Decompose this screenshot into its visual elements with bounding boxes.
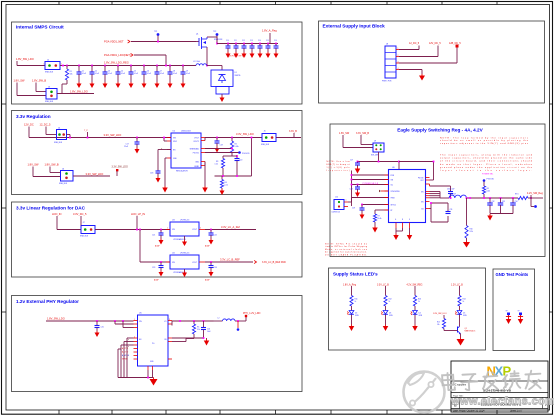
ground below C3 [103, 82, 108, 88]
ground below Q2 [457, 338, 465, 346]
svg-text:1.2v External PHY Regulator: 1.2v External PHY Regulator [16, 299, 79, 304]
svg-text:3.3V_LC_B_REF PAD: 3.3V_LC_B_REF PAD [262, 261, 286, 264]
wire output rail eagle [466, 197, 518, 199]
svg-text:TP: TP [518, 311, 520, 313]
svg-text:12V_DC_5: 12V_DC_5 [429, 42, 441, 45]
net label 4.2V_SW_Reg [527, 192, 543, 199]
net label 1.8V_SW_B row2 box2 [45, 163, 59, 167]
svg-text:ground plane under the applic: ground plane under the application circu… [440, 166, 533, 169]
watermark logo circle [404, 372, 445, 413]
svg-text:1.8V_A_Reg: 1.8V_A_Reg [343, 283, 357, 286]
ground below C22 [209, 239, 214, 245]
wire fan to pin3 [123, 321, 134, 328]
block border Eagle Supply Switching Reg [330, 124, 545, 257]
capacitor C5 [129, 65, 139, 82]
wire LDO_IN rail [57, 216, 81, 230]
block border 3.3v Linear Regulation for DAC [12, 202, 303, 277]
svg-text:SS8P3L: SS8P3L [235, 75, 241, 77]
svg-text:L3 4.7uH: L3 4.7uH [449, 193, 457, 195]
svg-text:0.1uF: 0.1uF [147, 73, 151, 75]
svg-text:3: 3 [398, 61, 399, 63]
svg-text:PGA VDD1_NET: PGA VDD1_NET [104, 40, 124, 44]
svg-text:DO NOT LEAVE FLOATING.: DO NOT LEAVE FLOATING. [325, 253, 367, 256]
ground below U6 pin3 [407, 234, 413, 241]
ground below C12 [242, 52, 247, 58]
block border 3.3v Regulation [12, 111, 303, 195]
svg-text:Q2: Q2 [465, 328, 467, 330]
capacitor C17 input [124, 137, 140, 148]
capacitor C22 [209, 229, 217, 239]
capacitor C6 [142, 65, 152, 82]
svg-text:D4: D4 [419, 313, 421, 315]
svg-text:NTA4153N: NTA4153N [214, 38, 223, 41]
svg-text:frequencies): frequencies) [327, 170, 350, 172]
ground below U6 pin1 [393, 234, 399, 241]
capacitor C11 [234, 40, 239, 52]
svg-text:PGOOD: PGOOD [418, 178, 425, 180]
op-amp U5 PHY LDO [134, 313, 173, 371]
svg-text:1.8V_SW_LDO: 1.8V_SW_LDO [433, 313, 447, 315]
svg-text:1.8V_SW_B: 1.8V_SW_B [32, 79, 46, 83]
svg-text:3.3V_LC_B_REF: 3.3V_LC_B_REF [220, 258, 240, 262]
svg-text:C32: C32 [492, 201, 495, 203]
svg-text:J10: J10 [335, 197, 338, 199]
svg-text:SENSE: SENSE [122, 358, 129, 360]
wire 1.8V_SW to jumper J6 [33, 167, 61, 177]
test point TP4 output [531, 198, 537, 208]
net label 3.3V_LC_B_REF PAD [262, 261, 286, 264]
inductor L1 [193, 61, 207, 66]
svg-text:C9: C9 [186, 71, 188, 73]
svg-text:1.8V_SW_LDO: 1.8V_SW_LDO [16, 57, 34, 61]
svg-text:NOTE: SYNC Pin should be: NOTE: SYNC Pin should be [325, 244, 367, 246]
ground below C13 [250, 52, 255, 58]
svg-text:RT: RT [391, 210, 393, 212]
net label 3.3V_SW_LDO input bus [104, 133, 122, 137]
resistor R15 base [437, 315, 458, 331]
capacitor C18 [150, 171, 161, 177]
net label 3.3V_B [289, 130, 297, 138]
net label 1.8V_SW_LDO [16, 57, 34, 61]
ground below R7 [372, 226, 378, 233]
wire 1.8V_SW_B to jumper J6 [50, 167, 61, 173]
resistor R8 PGOOD pullup [482, 182, 490, 199]
svg-text:LP2985-3.3: LP2985-3.3 [180, 253, 189, 255]
ground below C28 [355, 191, 360, 197]
resistor R11 [350, 296, 358, 311]
svg-text:VIN: VIN [391, 180, 394, 182]
wire VOUT bus [205, 138, 262, 141]
svg-text:SNB_BLK: SNB_BLK [59, 183, 68, 185]
resistor R4 to ground [220, 176, 227, 189]
svg-text:VOUT: VOUT [192, 262, 197, 264]
jumper J4 SNB_BLK [54, 128, 67, 145]
net label 1.8V_SW row2 [14, 79, 26, 83]
svg-text:51k: 51k [197, 329, 200, 331]
svg-text:BST: BST [421, 180, 424, 182]
diode D1 pad [216, 87, 229, 95]
wire U6 ground pins [396, 228, 410, 234]
svg-text:NOTE: Use a low: NOTE: Use a low [327, 161, 351, 163]
note text top right eagle [440, 137, 533, 173]
svg-text:GND Test Points: GND Test Points [496, 272, 529, 277]
watermark url text [450, 396, 554, 408]
net label LDO_IN [52, 212, 61, 216]
resistor R13 [413, 296, 421, 311]
net label 12_DC_5 [409, 42, 420, 45]
capacitor C23 [152, 261, 164, 270]
capacitor C9 [181, 65, 191, 82]
net label PGA VDD1_NET with off-page arrow [104, 40, 130, 44]
wire bundle left pins down [118, 338, 134, 378]
net label 3.3V_SW_LDO row2 [86, 172, 104, 176]
svg-text:VOUT2: VOUT2 [193, 141, 199, 143]
svg-text:R9 0: R9 0 [515, 194, 519, 196]
svg-text:C14: C14 [258, 40, 261, 42]
svg-text:0.1uF: 0.1uF [95, 73, 99, 75]
svg-text:C4: C4 [121, 71, 123, 73]
ground below C2 [90, 82, 95, 88]
capacitor C34 output 3 [510, 197, 517, 213]
ground connector pin4 [419, 74, 425, 81]
test point TP6 GND [518, 311, 524, 320]
svg-text:be made on that layer. Place a: be made on that layer. Place a local, un… [440, 163, 533, 166]
wire 12V_DC to regulator input [29, 127, 171, 138]
wire EN to cap C18 [158, 150, 171, 172]
svg-text:FB: FB [164, 339, 166, 341]
capacitor C21 [152, 229, 164, 239]
svg-text:N: N [402, 219, 403, 221]
LED D4 [411, 311, 423, 325]
jumper J5 output [261, 131, 276, 147]
wire left pin bus [351, 171, 389, 207]
svg-text:1.2V_LC_B: 1.2V_LC_B [451, 284, 463, 286]
inductor L3 [449, 193, 467, 198]
ground below C14 [258, 52, 263, 58]
capacitor C30 bootstrap [447, 189, 454, 199]
svg-text:C3: C3 [108, 71, 110, 73]
ground below C4 [116, 82, 121, 88]
ground below R10 [463, 241, 470, 248]
svg-text:MMBT3904LT1: MMBT3904LT1 [465, 330, 476, 332]
resistor R5 feedback vertical [172, 321, 200, 342]
net label 1.8V_SW_B row2 [32, 79, 46, 83]
svg-text:LDO_LP_IN: LDO_LP_IN [131, 212, 145, 216]
capacitor C15 [266, 40, 271, 52]
block border GND Test Points [493, 269, 535, 351]
svg-text:0.1uF: 0.1uF [82, 73, 86, 75]
capacitor C7 [155, 65, 165, 82]
test point TP5 GND [506, 311, 512, 320]
net label PGA VDD1_LDO(NET) with off-page arrow [104, 53, 133, 57]
LED D3 [381, 311, 393, 325]
svg-text:12B_DC_5: 12B_DC_5 [449, 42, 461, 45]
capacitor C16 [274, 40, 279, 52]
op-amp U4 LP2985 LDO B [166, 253, 205, 275]
ground below C17 [135, 148, 140, 154]
wire 12_DC_5 to jumper J4 [46, 127, 57, 135]
off-page arrow 3.3V_LC_B_REF [254, 260, 256, 263]
svg-text:0.1uF: 0.1uF [121, 73, 125, 75]
svg-text:R12: R12 [389, 299, 392, 301]
ground below D1 [220, 94, 225, 102]
resistor R12 [384, 296, 392, 311]
svg-text:C6: C6 [147, 71, 149, 73]
svg-text:1: 1 [167, 228, 168, 230]
jumper J2 SNB_BLK [44, 60, 62, 74]
svg-text:Sheet 2 of 7: Sheet 2 of 7 [510, 410, 523, 413]
svg-text:C26: C26 [207, 329, 210, 331]
svg-text:tied to INTVcc for Pulse Skipp: tied to INTVcc for Pulse Skipping [325, 245, 367, 248]
svg-text:LP2985-3.3: LP2985-3.3 [180, 220, 189, 222]
ground below C9 [181, 82, 186, 88]
ground below C26 [204, 338, 210, 346]
svg-text:PGOOD: PGOOD [242, 153, 250, 155]
capacitor C33 output 2 [498, 197, 505, 213]
capacitor C8 [168, 65, 178, 82]
wire drain bus to input caps [207, 37, 278, 44]
svg-text:TP: TP [506, 311, 508, 313]
svg-text:Supply Status LED's: Supply Status LED's [333, 272, 378, 277]
wire 1.8V_SW to jumper J3 [17, 83, 46, 96]
svg-text:1.0k: 1.0k [215, 164, 218, 166]
svg-text:PHY_1.2V_LDO: PHY_1.2V_LDO [243, 312, 261, 315]
svg-text:10uF: 10uF [207, 331, 211, 333]
wire BST node to bootstrap cap [426, 184, 451, 192]
wire SENSE to feedback node [205, 148, 233, 150]
svg-text:0.1uF: 0.1uF [134, 73, 138, 75]
svg-text:R10: R10 [470, 229, 473, 231]
svg-text:x: x [346, 200, 347, 202]
test point PGOOD [205, 151, 250, 155]
capacitor C4 [116, 65, 126, 82]
red note below C21 [155, 245, 160, 248]
test point TP2 [213, 31, 218, 44]
net label PHY_1.2V_LDO [243, 312, 261, 321]
ground below C23 [159, 271, 164, 277]
svg-text:C8: C8 [173, 71, 175, 73]
op-amp U2 LMZ12003 regulator module [167, 131, 205, 173]
wire pin2 to 12V_DC_5 [399, 46, 438, 57]
wire PGA VDD1_LDO to bus [134, 55, 167, 66]
note text bottom left eagle [325, 244, 367, 257]
wire feedback bottom rail [215, 137, 253, 177]
wire U5 output merge [172, 320, 214, 325]
X mark DNI [161, 148, 163, 151]
net stub 3.3V_SW_LDO dark [112, 166, 128, 177]
block border 1.2v External PHY Regulator [12, 296, 303, 392]
svg-text:0.1k: 0.1k [225, 185, 228, 187]
svg-text:1.8V_A_Reg: 1.8V_A_Reg [262, 29, 277, 33]
wire INTVCC pin to C29 [361, 204, 388, 206]
wire GND pin down [165, 158, 167, 186]
svg-text:100k: 100k [487, 190, 491, 192]
svg-text:10k: 10k [70, 74, 73, 76]
svg-text:D2: D2 [355, 313, 357, 315]
wire jumper J5 to box edge [276, 137, 301, 139]
svg-text:C34: C34 [515, 201, 518, 203]
net label 12V_DC [24, 123, 34, 127]
ground below U2 mid [221, 188, 223, 190]
svg-text:5.90k: 5.90k [235, 146, 239, 148]
wire jumper J9 to VIN rail [357, 152, 399, 162]
svg-text:SNB_BLK: SNB_BLK [261, 144, 270, 146]
block border External Supply Input Block [319, 21, 545, 103]
svg-text:VOUT: VOUT [194, 138, 199, 140]
block border Internal SMPS Circuit [12, 22, 303, 104]
capacitor C25 [95, 321, 104, 331]
svg-text:LMZ12003: LMZ12003 [181, 131, 191, 133]
ground below C10 [226, 52, 231, 58]
jumper J9 SW_JMP 2x2 [371, 141, 384, 157]
svg-text:0.1uF: 0.1uF [108, 73, 112, 75]
transistor Q1 PMOS [196, 34, 223, 50]
svg-text:3.3V_LC_B: 3.3V_LC_B [377, 284, 389, 286]
svg-text:should be as small as possible: should be as small as possible by placin… [440, 139, 529, 142]
resistor R10 feedback 121k [465, 198, 473, 241]
wire LDO_LP_IN drop [136, 216, 138, 230]
svg-text:C10: C10 [226, 40, 229, 42]
svg-text:C31: C31 [450, 209, 453, 211]
svg-text:INTVCC: INTVCC [391, 205, 398, 207]
svg-text:3.3v Regulation: 3.3v Regulation [16, 114, 51, 119]
wire 1.8V_A_Reg to resistor [351, 286, 353, 296]
wire fan to pin2 [115, 321, 134, 324]
ground below TP5 [506, 319, 512, 324]
svg-text:PGOOD: PGOOD [193, 153, 200, 155]
ground below C7 [155, 82, 160, 88]
svg-text:C30 0.1uF: C30 0.1uF [447, 189, 454, 191]
svg-text:1.8V_SW: 1.8V_SW [14, 79, 26, 83]
svg-text:R7: R7 [378, 216, 380, 218]
svg-text:R11: R11 [355, 299, 358, 301]
note PADS POWER TIP [227, 55, 245, 58]
svg-text:1: 1 [398, 48, 399, 50]
svg-text:3.3V_SW_LDO: 3.3V_SW_LDO [236, 132, 254, 136]
svg-text:C29: C29 [352, 208, 355, 210]
svg-text:D5: D5 [463, 313, 465, 315]
svg-text:3.3V_SW_LDO: 3.3V_SW_LDO [86, 172, 104, 176]
svg-text:www.elecfans.com: www.elecfans.com [450, 396, 554, 408]
wire from 1.8V_SW_LDO to jumper J2 [17, 61, 45, 66]
svg-text:3.3V_DC_5: 3.3V_DC_5 [73, 212, 87, 216]
net label 1.8V_SW_LDO on wire [70, 90, 88, 94]
wire pin3 to 12B_DC_5 [399, 47, 457, 63]
svg-text:The input capacitors, along wi: The input capacitors, along with the ind… [440, 154, 533, 157]
svg-text:1(8) x.5(8) pole: 1(8) x.5(8) pole [327, 167, 350, 169]
svg-text:C24: C24 [214, 267, 217, 269]
svg-text:1.8V_SW_LDO: 1.8V_SW_LDO [47, 317, 65, 321]
svg-text:C13: C13 [250, 40, 253, 42]
svg-text:1k: 1k [463, 301, 465, 303]
svg-text:ESR(?) to bump at: ESR(?) to bump at [327, 163, 351, 166]
resistor R9 series output [515, 194, 528, 200]
ground below C15 [266, 52, 271, 58]
capacitor C26 output [172, 321, 211, 339]
svg-text:C21: C21 [152, 235, 155, 237]
svg-text:A_MODE: A_MODE [122, 354, 130, 357]
svg-text:output capacitors, should be p: output capacitors, should be placed on t… [440, 157, 533, 160]
capacitor C10 [226, 40, 231, 52]
red note below C24 [205, 279, 210, 282]
NXP logo [487, 364, 512, 379]
svg-text:SENSE/ADJ: SENSE/ADJ [190, 148, 200, 151]
capacitor C28 SQ pin [350, 184, 361, 191]
svg-text:C15: C15 [266, 40, 269, 42]
net label 1.8V_A_Reg [343, 283, 357, 286]
svg-text:PGA VDD1_LDO(NET): PGA VDD1_LDO(NET) [104, 53, 131, 57]
svg-text:3.3V_SW_LDO: 3.3V_SW_LDO [112, 166, 128, 169]
svg-text:3.3V_B: 3.3V_B [289, 130, 297, 133]
svg-text:NOTE: The loop formed by the i: NOTE: The loop formed by the input capac… [440, 137, 529, 140]
svg-text:Internal SMPS Circuit: Internal SMPS Circuit [16, 25, 64, 30]
capacitor C19 output [215, 137, 223, 147]
ground below C8 [168, 82, 173, 88]
wire 4.2V_SW_REG to resistor [414, 286, 416, 296]
wire VIN2 tie [163, 137, 167, 141]
net label 1.8V_SW eagle [339, 132, 350, 135]
wire pin1 to 12_DC_5 [399, 46, 419, 50]
inductor L2 series [218, 318, 236, 322]
svg-text:1.8V_SW_B: 1.8V_SW_B [45, 163, 59, 167]
svg-text:C11: C11 [234, 40, 237, 42]
capacitor C31 loop [446, 209, 453, 214]
svg-text:C20: C20 [239, 160, 242, 162]
svg-text:C27: C27 [350, 160, 353, 162]
jumper J7 inline [80, 222, 95, 238]
svg-text:1k: 1k [418, 301, 420, 303]
net label 3.3V_SW_LDO output [236, 132, 254, 136]
svg-text:C28: C28 [350, 189, 353, 191]
ground below C5 [129, 82, 134, 88]
svg-text:1.8V_SW: 1.8V_SW [339, 132, 350, 135]
svg-text:POWER SEL: POWER SEL [482, 174, 493, 176]
svg-text:C18: C18 [150, 173, 153, 175]
ground PHY rail [150, 378, 158, 386]
magenta note POWER SB 1-8 [363, 183, 379, 185]
svg-text:12V_DC: 12V_DC [24, 123, 34, 127]
net labels PHY control stack [122, 347, 130, 361]
net label 3.3V_LC_A_Ref [221, 225, 240, 229]
resistor R2 feedback top [230, 137, 238, 153]
svg-text:C19: C19 [220, 145, 223, 147]
net label 1.8V_A_Reg [262, 29, 277, 44]
net label 3.3V_LC_B [377, 284, 389, 286]
svg-text:5: 5 [200, 228, 201, 230]
capacitor C13 [250, 40, 255, 52]
svg-text:of the circuit board, and the: of the circuit board, and their connecti… [440, 160, 533, 163]
wire L2 to output node [235, 320, 246, 322]
svg-text:External Supply Input Block: External Supply Input Block [323, 24, 386, 29]
svg-text:60.4k: 60.4k [378, 218, 382, 220]
op-amp U3 LP2985 LDO [166, 220, 205, 242]
wire J10 to TRKB pin [346, 198, 389, 203]
watermark chinese characters [442, 370, 541, 390]
svg-text:TP2: TP2 [213, 31, 216, 33]
wire jumper J3 output [57, 93, 94, 95]
wire VIN rail to U6 top pin [398, 161, 400, 170]
svg-text:1.8V_SW_LDO: 1.8V_SW_LDO [70, 90, 88, 94]
ground below U4 [182, 269, 187, 277]
svg-text:PADS POWER TIP 1E-4: PADS POWER TIP 1E-4 [227, 55, 245, 58]
net label 3.3V_SW_B eagle [356, 132, 369, 135]
svg-text:22uF: 22uF [124, 146, 128, 148]
svg-text:SNB_BLK: SNB_BLK [80, 236, 89, 238]
wire 1.8V SMPS output bus [60, 65, 196, 67]
resistor R14 [458, 296, 466, 311]
net label 1.8V_SW row2 box2 [28, 163, 40, 167]
wire jumper J6 output [73, 175, 110, 177]
